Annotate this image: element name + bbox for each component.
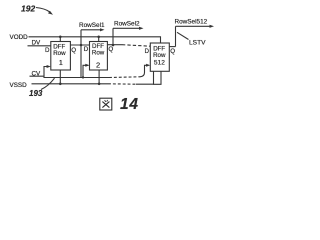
svg-text:14: 14 — [120, 96, 139, 113]
clock line CV — [30, 76, 110, 77]
node RowSel512 tap vertical — [175, 26, 177, 46]
DFF box U2 Row 2 — [90, 42, 108, 71]
RowSel2 arrow — [113, 27, 141, 29]
RowSel512 arrow — [176, 25, 212, 27]
DFF box U512 Row 512 — [150, 43, 169, 71]
svg-text:RowSel2: RowSel2 — [114, 21, 140, 28]
wire box1 top stub to VODD — [59, 37, 61, 42]
label 193 leader — [41, 78, 55, 89]
svg-text:LSTV: LSTV — [189, 39, 206, 46]
svg-text:Q: Q — [71, 47, 76, 54]
svg-text:D: D — [84, 46, 89, 53]
wire box512 bottom U stub — [154, 71, 162, 84]
svg-text:D: D — [145, 48, 150, 55]
svg-text:RowSel512: RowSel512 — [175, 19, 208, 26]
clock riser DFF2 — [83, 65, 88, 77]
wire Q512 out — [169, 46, 175, 48]
wire Q2 to D512 (dashed continuation) — [107, 44, 122, 46]
svg-text:Row: Row — [153, 52, 166, 59]
wire DV input — [28, 45, 51, 47]
figure label glyph 図 — [100, 98, 112, 110]
clock riser DFF512 — [140, 65, 149, 77]
svg-text:Q: Q — [170, 48, 175, 55]
svg-text:DV: DV — [32, 40, 42, 47]
wire box1 bottom stub to VSSD — [59, 70, 61, 84]
svg-text:Row: Row — [92, 49, 105, 56]
node RowSel1 tap vertical — [80, 30, 82, 78]
label 192 leader arrow — [36, 8, 50, 12]
svg-text:VODD: VODD — [10, 34, 29, 41]
clock riser DFF1 — [44, 67, 50, 77]
VODD supply rail — [29, 37, 161, 43]
svg-text:Row: Row — [53, 50, 66, 57]
svg-text:192: 192 — [21, 4, 35, 14]
RowSel1 arrow — [81, 29, 102, 31]
node RowSel2 tap vertical — [112, 28, 114, 45]
svg-text:Q: Q — [108, 46, 113, 53]
svg-text:RowSel1: RowSel1 — [79, 22, 105, 29]
wire box2 bottom stub to VSSD — [98, 70, 100, 84]
DFF box U1 Row 1 — [51, 42, 71, 71]
wire Q1 to D2 — [70, 44, 89, 46]
svg-text:VSSD: VSSD — [10, 82, 28, 89]
VSSD rail — [32, 83, 109, 85]
wire box2 top stub to VODD — [98, 37, 100, 42]
svg-text:CV: CV — [32, 71, 42, 78]
junction dots — [59, 36, 62, 39]
svg-text:1: 1 — [59, 58, 63, 67]
svg-text:D: D — [45, 47, 50, 54]
LSTV leader line — [177, 32, 189, 39]
svg-text:512: 512 — [154, 60, 165, 67]
svg-text:2: 2 — [96, 61, 100, 70]
svg-text:193: 193 — [29, 89, 43, 98]
